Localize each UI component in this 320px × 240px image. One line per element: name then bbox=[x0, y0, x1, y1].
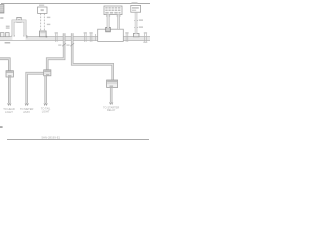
svg-text:LIGHT: LIGHT bbox=[5, 110, 13, 114]
svg-text:RELAY: RELAY bbox=[107, 108, 116, 112]
svg-text:5HN-28199-E1: 5HN-28199-E1 bbox=[41, 136, 60, 140]
svg-text:ASSY: ASSY bbox=[23, 110, 30, 114]
svg-text:LIGHT: LIGHT bbox=[42, 109, 50, 113]
